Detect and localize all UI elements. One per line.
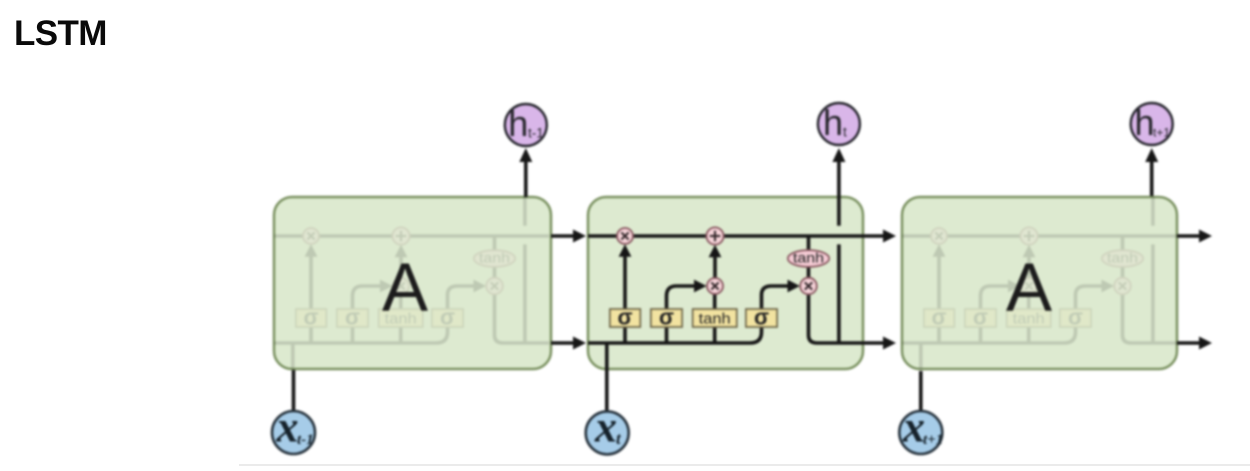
wire: h line far right exit arrow [1177, 341, 1200, 345]
faded internals [274, 197, 549, 369]
wire: h t+1 output arrow [1150, 161, 1154, 196]
wire: h t output arrow [837, 161, 841, 197]
svg-text:x: x [594, 403, 617, 452]
wire: h line left gap arrow [551, 341, 574, 345]
node h t-1 [505, 104, 547, 146]
cell body [588, 197, 863, 369]
wire: h t-1 output arrow [524, 161, 528, 197]
node x t [586, 411, 629, 454]
svg-text:A: A [1006, 249, 1052, 326]
svg-text:x: x [276, 403, 299, 452]
node x t-1 [272, 411, 315, 454]
faded internals [902, 197, 1177, 369]
bottom separator line [239, 464, 1250, 466]
svg-text:h: h [823, 102, 843, 143]
svg-text:t-1: t-1 [528, 126, 544, 141]
node x t+1 [899, 411, 942, 454]
svg-text:A: A [382, 249, 428, 326]
node h t+1 [1131, 103, 1173, 145]
node h t [818, 103, 860, 145]
svg-text:t-1: t-1 [297, 432, 314, 448]
wire: x t input [605, 369, 609, 411]
svg-text:t: t [843, 125, 847, 140]
wire: C line right gap arrow [863, 234, 884, 238]
wire: C line left gap arrow [551, 234, 574, 238]
wire: x t-1 input [292, 370, 296, 411]
svg-text:x: x [902, 403, 925, 452]
wire: h line right gap arrow [863, 341, 884, 345]
wire: C line far right exit arrow [1177, 234, 1200, 238]
cell body [902, 197, 1177, 369]
svg-text:t+1: t+1 [923, 432, 943, 448]
wire: x t+1 input [919, 371, 923, 411]
svg-text:h: h [1134, 102, 1154, 143]
svg-text:t+1: t+1 [1153, 126, 1170, 140]
svg-text:h: h [508, 103, 528, 144]
cell body [274, 197, 551, 369]
